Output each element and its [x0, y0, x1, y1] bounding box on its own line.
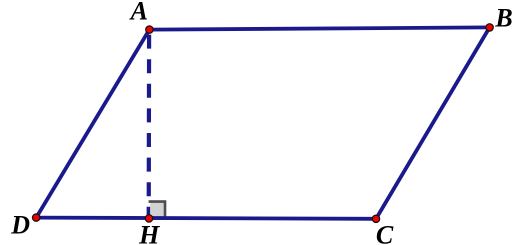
svg-text:D: D — [10, 211, 30, 240]
side DC — [36, 218, 376, 219]
svg-text:A: A — [129, 0, 148, 26]
point D — [33, 214, 40, 221]
point H — [145, 215, 152, 222]
right-angle mark at H — [149, 200, 167, 217]
side DA — [36, 30, 149, 218]
point B — [486, 24, 493, 31]
point A — [146, 26, 153, 33]
side AB — [149, 27, 489, 29]
side BC — [376, 27, 490, 218]
point C — [372, 215, 379, 222]
svg-text:B: B — [494, 3, 512, 32]
svg-text:H: H — [138, 221, 160, 245]
dashed altitude AH — [147, 35, 152, 219]
svg-text:C: C — [376, 221, 394, 245]
